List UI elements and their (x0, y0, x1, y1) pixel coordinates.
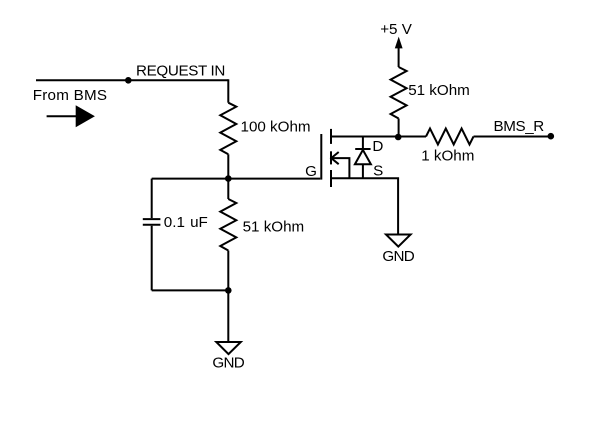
terminal BMS_R (548, 133, 555, 140)
ground symbol right (386, 235, 411, 247)
svg-text:BMS_R: BMS_R (494, 118, 545, 135)
node drain junction (395, 134, 402, 141)
wire ground node to GND symbol (227, 290, 229, 341)
wire gate node to capacitor branch (152, 178, 229, 180)
ground symbol left (216, 342, 241, 354)
wire drain node to R4 (398, 136, 426, 138)
resistor R4 1 kOhm (426, 129, 474, 145)
power +5V arrow stem (398, 48, 400, 68)
svg-text:GND: GND (212, 355, 244, 372)
body diode cathode bar (355, 148, 370, 150)
svg-text:G: G (305, 163, 317, 180)
transistor Q1 gate plate (320, 134, 322, 180)
svg-text:+5 V: +5 V (380, 21, 413, 38)
transistor Q1 body arrow (331, 152, 339, 164)
svg-text:S: S (373, 162, 383, 179)
wire gate node down to R2 (227, 179, 229, 199)
resistor R2 51 kOhm (220, 199, 236, 251)
svg-text:1 kOhm: 1 kOhm (421, 148, 474, 165)
body diode anode lead (362, 164, 364, 178)
signal flow arrow head (76, 105, 95, 127)
svg-text:51 kOhm: 51 kOhm (243, 219, 305, 236)
svg-text:uF: uF (190, 214, 208, 231)
svg-text:100 kOhm: 100 kOhm (241, 118, 311, 135)
node ground junction (225, 287, 232, 294)
svg-text:0.1: 0.1 (164, 214, 185, 231)
wire input horizontal (From BMS to R1 top corner) (36, 79, 228, 81)
body diode cathode lead (362, 137, 364, 150)
svg-text:From BMS: From BMS (33, 87, 108, 104)
resistor R1 100 kOhm (220, 103, 236, 155)
transistor Q1 channel top segment (330, 129, 332, 144)
power +5V arrow head (395, 37, 403, 49)
signal flow arrow line (47, 115, 76, 117)
wire capacitor bottom to ground node (152, 289, 229, 291)
body diode triangle (355, 150, 371, 164)
svg-text:REQUEST IN: REQUEST IN (136, 62, 225, 79)
wire R2 bottom to ground node (227, 251, 229, 291)
wire source to right and down (331, 178, 398, 233)
capacitor C1 plates (0.1 uF) (143, 219, 161, 225)
svg-text:51 kOhm: 51 kOhm (408, 82, 470, 99)
wire input corner down to R1 (227, 79, 229, 102)
wire drain (331, 136, 399, 138)
wire gate node to MOSFET gate (228, 178, 320, 180)
resistor R3 51 kOhm (391, 67, 407, 119)
transistor Q1 body connection to source (331, 158, 349, 178)
capacitor C1 lower lead (151, 226, 153, 291)
svg-text:GND: GND (382, 248, 414, 265)
node REQUEST IN junction (125, 77, 132, 84)
capacitor C1 upper lead (151, 179, 153, 219)
wire R3 bottom to drain node (398, 119, 400, 137)
node gate junction (225, 175, 232, 182)
wire R1 bottom to gate node (227, 154, 229, 178)
svg-text:D: D (372, 138, 383, 155)
transistor Q1 channel middle segment (330, 151, 332, 164)
wire R4 to BMS_R terminal (474, 136, 551, 138)
transistor Q1 channel bottom segment (330, 170, 332, 187)
